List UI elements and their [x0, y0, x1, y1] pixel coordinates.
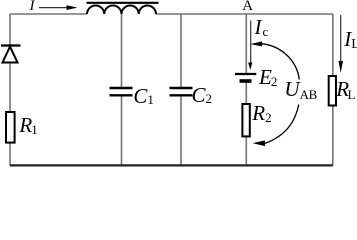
label UAB — [284, 79, 317, 100]
wire C2 branch lower — [180, 97, 182, 166]
resistor R1 — [6, 112, 15, 143]
wire right branch lower (RL to bottom) — [332, 106, 334, 166]
label RL — [336, 79, 355, 100]
wire right branch upper (rail to RL) — [332, 14, 334, 76]
diode D (left branch) — [1, 46, 21, 63]
label C1 — [133, 86, 154, 107]
wire bottom rail — [10, 164, 333, 166]
resistor RL — [329, 76, 336, 106]
label R2 — [252, 103, 271, 124]
wire left branch diode-to-R1 — [9, 63, 11, 112]
arrow current I (top left) — [39, 5, 78, 10]
wire C1 branch upper — [121, 14, 123, 87]
battery E2 — [235, 74, 256, 81]
wire left branch R1-to-bottom — [9, 143, 11, 166]
arrow current IL — [339, 15, 344, 73]
UAB arc lower with arrowhead — [253, 105, 299, 147]
arrow current Ic — [248, 21, 252, 71]
capacitor C2 — [170, 88, 193, 95]
inductor L with core bar — [87, 3, 159, 14]
wire C1 branch lower — [121, 97, 123, 166]
node A label — [242, 0, 253, 14]
wire top rail left segment — [10, 13, 87, 15]
wire E2-R2 branch upper (node A down to E2) — [245, 14, 247, 73]
capacitor C1 — [110, 88, 133, 95]
label I (top current) — [30, 0, 35, 14]
label C2 — [192, 85, 213, 106]
label Ic — [255, 17, 269, 38]
wire C2 branch upper — [180, 14, 182, 87]
label IL — [344, 29, 357, 50]
resistor R2 — [242, 104, 249, 136]
wire top rail right segment — [156, 13, 333, 15]
UAB arc upper with arrowhead — [250, 41, 299, 79]
label E2 — [259, 67, 277, 88]
wire E2-R2 branch middle (E2 to R2) — [245, 82, 247, 104]
wire E2-R2 branch lower (R2 to bottom) — [245, 137, 247, 166]
wire left branch upper (corner to diode) — [9, 14, 11, 45]
label R1 — [19, 115, 37, 136]
